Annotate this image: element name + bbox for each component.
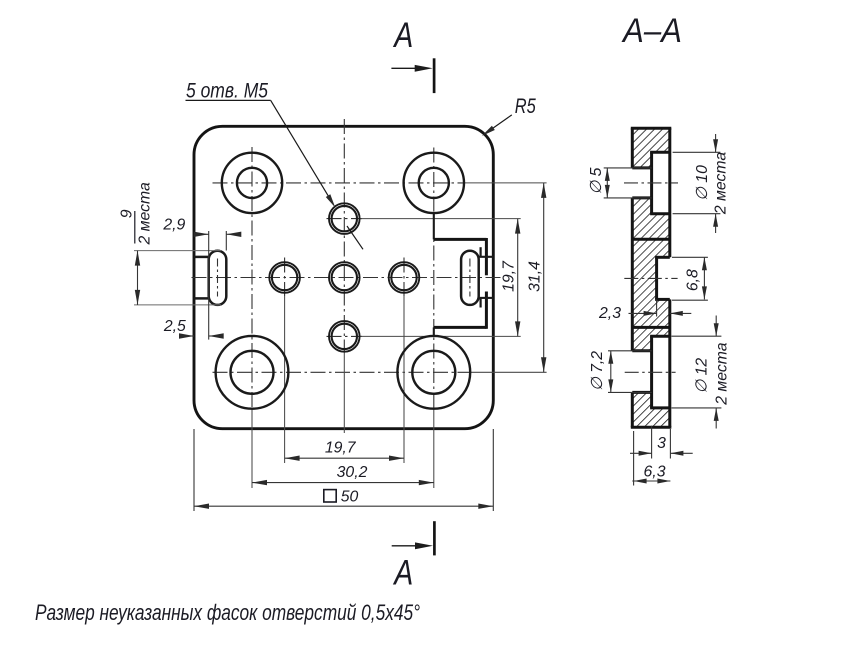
svg-text:3: 3 [657,435,666,452]
svg-text:6,8: 6,8 [685,269,702,291]
svg-text:2,9: 2,9 [162,217,185,234]
svg-text:2,3: 2,3 [598,305,621,322]
svg-text:2 места: 2 места [137,182,154,245]
svg-text:А: А [393,16,414,55]
svg-text:∅ 5: ∅ 5 [588,167,605,194]
svg-text:5 отв. М5: 5 отв. М5 [186,78,269,102]
svg-text:30,2: 30,2 [337,464,368,481]
svg-text:2,5: 2,5 [163,318,186,335]
svg-text:∅ 7,2: ∅ 7,2 [589,351,606,391]
svg-text:31,4: 31,4 [527,261,544,292]
svg-text:19,7: 19,7 [325,439,357,456]
svg-text:Размер неуказанных фасок отвер: Размер неуказанных фасок отверстий 0,5х4… [35,600,420,625]
svg-text:2 места: 2 места [714,342,731,405]
svg-text:R5: R5 [515,94,537,118]
svg-text:2 места: 2 места [713,152,730,215]
svg-text:50: 50 [341,488,359,505]
svg-text:А–А: А–А [621,12,682,50]
svg-text:А: А [393,554,414,593]
svg-text:6,3: 6,3 [644,464,666,481]
svg-text:19,7: 19,7 [501,260,518,292]
svg-text:∅ 10: ∅ 10 [694,165,711,201]
svg-text:9: 9 [119,209,136,218]
svg-text:∅ 12: ∅ 12 [694,358,711,394]
